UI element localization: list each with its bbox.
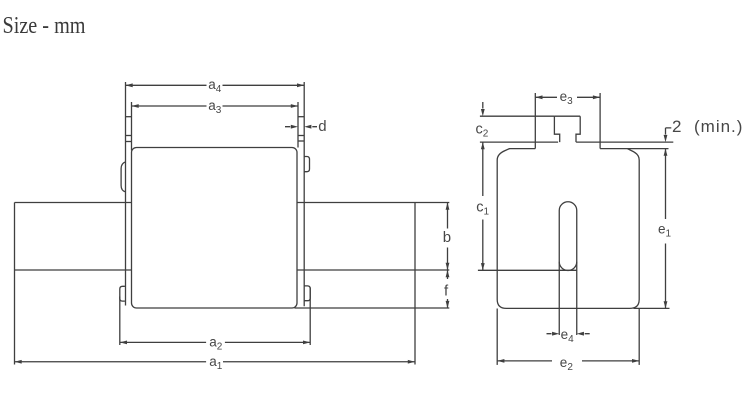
dimension b xyxy=(447,203,449,271)
fuse body (front view) xyxy=(132,148,298,309)
wire left tab tick low xyxy=(126,141,132,143)
wire left tab tick mid xyxy=(126,135,132,137)
dimension d xyxy=(285,126,317,128)
wire right tab tick top xyxy=(298,116,304,118)
svg-text:e4: e4 xyxy=(561,327,575,345)
svg-text:a4: a4 xyxy=(208,77,222,95)
wire right tab tick mid xyxy=(298,135,304,137)
wire blade bottom edge right + f extension xyxy=(297,269,449,271)
fuse body (side view) xyxy=(497,149,639,309)
dimension f xyxy=(447,270,449,308)
dimension a1 xyxy=(15,361,416,363)
svg-text:e3: e3 xyxy=(560,89,574,107)
wire blade left edge + a1 extension xyxy=(14,203,16,365)
wire right lug inner line + a3 extension xyxy=(297,102,299,148)
svg-text:b: b xyxy=(443,229,451,246)
wire body bottom extension to f xyxy=(295,307,450,309)
wire plateau segment right + e1 extension xyxy=(600,148,668,150)
svg-text:e1: e1 xyxy=(658,222,672,240)
slot right side + e4 extension xyxy=(576,211,578,336)
wire left tab tick top xyxy=(126,116,132,118)
grip ear upper left xyxy=(121,162,125,192)
svg-text:c2: c2 xyxy=(476,122,489,140)
wire right lug outer line + a4 extension xyxy=(303,82,305,306)
wire e2 extension left xyxy=(496,309,498,365)
dimension c2 xyxy=(482,102,484,109)
svg-text:2: 2 xyxy=(672,117,681,136)
wire a2 extension right xyxy=(309,288,311,346)
dimension e1 xyxy=(665,149,667,309)
dimension e3 xyxy=(535,96,600,98)
svg-text:(min.): (min.) xyxy=(694,117,743,136)
dimension 2 (min.) leader xyxy=(666,128,672,135)
wire e3 extension left xyxy=(534,93,536,149)
dimension a2 xyxy=(120,341,310,343)
wire shoulder line right (2min extension) xyxy=(576,141,673,143)
dimension e4 xyxy=(547,333,590,335)
dimension e2 xyxy=(497,360,639,362)
svg-text:e2: e2 xyxy=(560,355,574,373)
wire body bottom extension to e1 xyxy=(634,307,670,309)
wire left lug inner line + a3 extension xyxy=(131,102,133,151)
grip ear lower right xyxy=(304,286,310,301)
dimension a4 xyxy=(126,84,305,86)
wire blade right edge + a1 extension xyxy=(414,203,416,365)
dimension c1 xyxy=(482,142,484,270)
wire a2 extension left xyxy=(119,297,121,346)
wire e2 extension right xyxy=(638,309,640,365)
svg-text:a3: a3 xyxy=(208,98,222,116)
wire right tab tick low xyxy=(298,140,304,142)
wire slot bottom extension line xyxy=(478,269,577,271)
svg-text:d: d xyxy=(318,118,326,135)
wire tab top extension to c2 xyxy=(480,115,555,117)
slot top arc xyxy=(559,202,577,211)
dimension a3 xyxy=(132,105,299,107)
wire shoulder line left (c2 extension) xyxy=(480,141,558,143)
wire e3 extension right xyxy=(599,93,601,149)
grip ear lower left xyxy=(120,286,125,301)
slot bottom arc xyxy=(559,262,577,271)
svg-text:f: f xyxy=(444,283,449,300)
grip ear upper right xyxy=(304,157,309,172)
wire blade bottom edge left xyxy=(15,269,132,271)
blade tab (side view) xyxy=(554,116,580,142)
svg-text:c1: c1 xyxy=(476,200,489,218)
wire blade top edge left xyxy=(15,202,132,204)
slot left side + e4 extension xyxy=(558,211,560,336)
wire plateau segment left xyxy=(509,148,535,150)
wire left lug outer line + a4 extension xyxy=(125,82,127,306)
svg-text:Size - mm: Size - mm xyxy=(3,13,86,39)
wire blade top edge right + b extension xyxy=(297,202,449,204)
svg-text:a1: a1 xyxy=(209,354,223,372)
svg-text:a2: a2 xyxy=(209,335,223,353)
